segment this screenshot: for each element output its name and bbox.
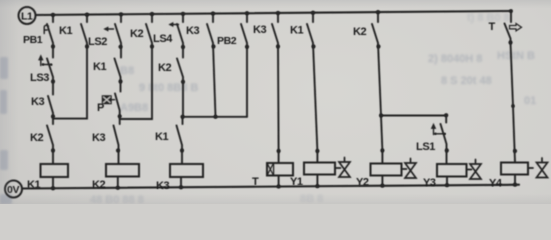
- svg-text:8 S 20t 48: 8 S 20t 48: [441, 75, 492, 87]
- svg-text:K1: K1: [93, 61, 107, 73]
- svg-text:K3: K3: [156, 180, 170, 192]
- svg-text:K2: K2: [92, 179, 106, 191]
- svg-text:K1: K1: [290, 25, 304, 37]
- svg-text:T: T: [252, 176, 259, 188]
- svg-text:P: P: [97, 102, 104, 114]
- svg-text:K1: K1: [155, 131, 169, 143]
- svg-text:K1: K1: [59, 25, 73, 37]
- svg-text:T: T: [489, 21, 496, 33]
- svg-text:LS3: LS3: [30, 72, 49, 84]
- svg-text:LS4: LS4: [153, 33, 173, 45]
- svg-text:01: 01: [524, 95, 536, 107]
- svg-text:PB2: PB2: [217, 35, 237, 47]
- svg-text:0V: 0V: [7, 184, 19, 196]
- svg-text:K2: K2: [130, 28, 144, 40]
- svg-text:A9B8: A9B8: [120, 102, 148, 114]
- svg-text:LS2: LS2: [88, 36, 107, 48]
- svg-text:PB1: PB1: [23, 34, 43, 46]
- svg-text:9 8t0 8B8 B: 9 8t0 8B8 B: [139, 82, 198, 94]
- svg-text:K2: K2: [353, 26, 367, 38]
- svg-text:8B 8: 8B 8: [300, 193, 323, 204]
- svg-text:K2: K2: [30, 132, 44, 144]
- svg-text:K2: K2: [158, 62, 172, 74]
- svg-text:2) 8040H 8: 2) 8040H 8: [428, 53, 482, 65]
- svg-text:Y2: Y2: [356, 177, 369, 189]
- svg-text:K3: K3: [92, 132, 106, 144]
- svg-text:K1: K1: [27, 179, 41, 191]
- svg-text:LS1: LS1: [416, 141, 435, 153]
- svg-text:Y1: Y1: [290, 176, 303, 188]
- svg-text:HStN B: HStN B: [497, 50, 535, 62]
- svg-text:L1: L1: [21, 11, 33, 23]
- svg-text:K3: K3: [186, 25, 200, 37]
- svg-text:Y4: Y4: [489, 178, 503, 190]
- svg-text:Y3: Y3: [423, 177, 436, 189]
- svg-text:B8: B8: [120, 65, 134, 77]
- svg-text:48 B0 88 8: 48 B0 88 8: [90, 194, 144, 204]
- svg-text:K3: K3: [253, 24, 267, 36]
- svg-text:K3: K3: [31, 96, 45, 108]
